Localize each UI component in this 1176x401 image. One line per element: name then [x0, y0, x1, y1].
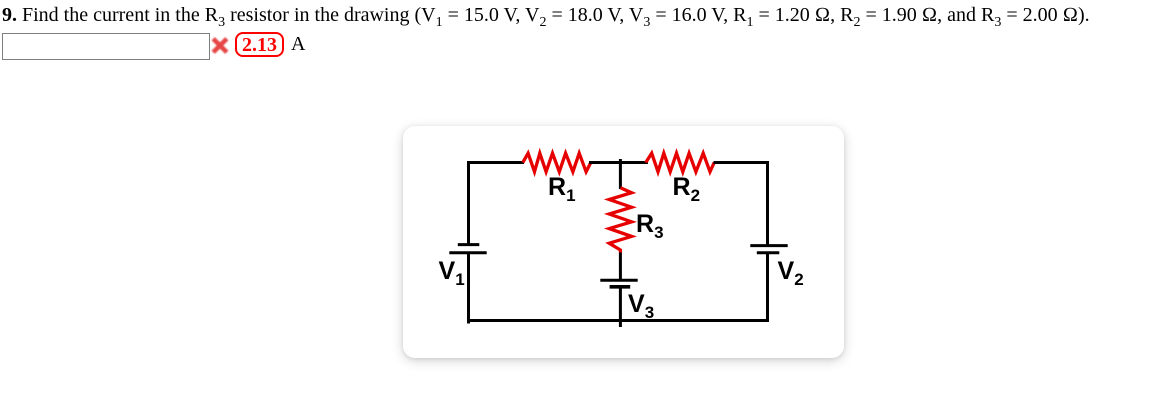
resistor R2	[646, 153, 714, 172]
middle branch wire to V3	[619, 253, 622, 280]
problem text line 1	[2, 4, 1090, 27]
battery V2 long plate	[750, 244, 787, 247]
top wire right segment	[714, 161, 770, 164]
answer key box 2.13	[235, 32, 284, 57]
label V1	[439, 259, 465, 284]
middle branch lower wire with overhang	[619, 288, 622, 327]
label R1	[548, 175, 576, 200]
white card with shadow	[403, 126, 844, 358]
left wire lower	[469, 254, 471, 322]
label R2	[673, 175, 701, 200]
resistor R3	[609, 188, 631, 253]
middle branch upper wire with junction tick	[619, 159, 622, 189]
red X wrong-answer icon	[210, 35, 230, 55]
resistor R1	[523, 153, 591, 172]
left wire upper	[467, 161, 470, 244]
battery V3 long plate	[600, 279, 637, 282]
top wire middle segment	[589, 161, 648, 164]
battery V1 short plate	[458, 243, 480, 246]
top wire left segment	[467, 161, 524, 164]
label V3	[628, 292, 654, 317]
label V2	[778, 259, 804, 284]
right wire lower	[766, 254, 769, 322]
right wire upper	[766, 161, 769, 245]
battery V3 short plate	[610, 285, 631, 289]
battery V2 short plate	[757, 251, 780, 254]
label R3	[636, 212, 664, 237]
bottom wire	[467, 319, 769, 322]
battery V1 long plate	[449, 251, 486, 254]
unit A	[291, 33, 305, 56]
answer input box	[2, 33, 210, 60]
